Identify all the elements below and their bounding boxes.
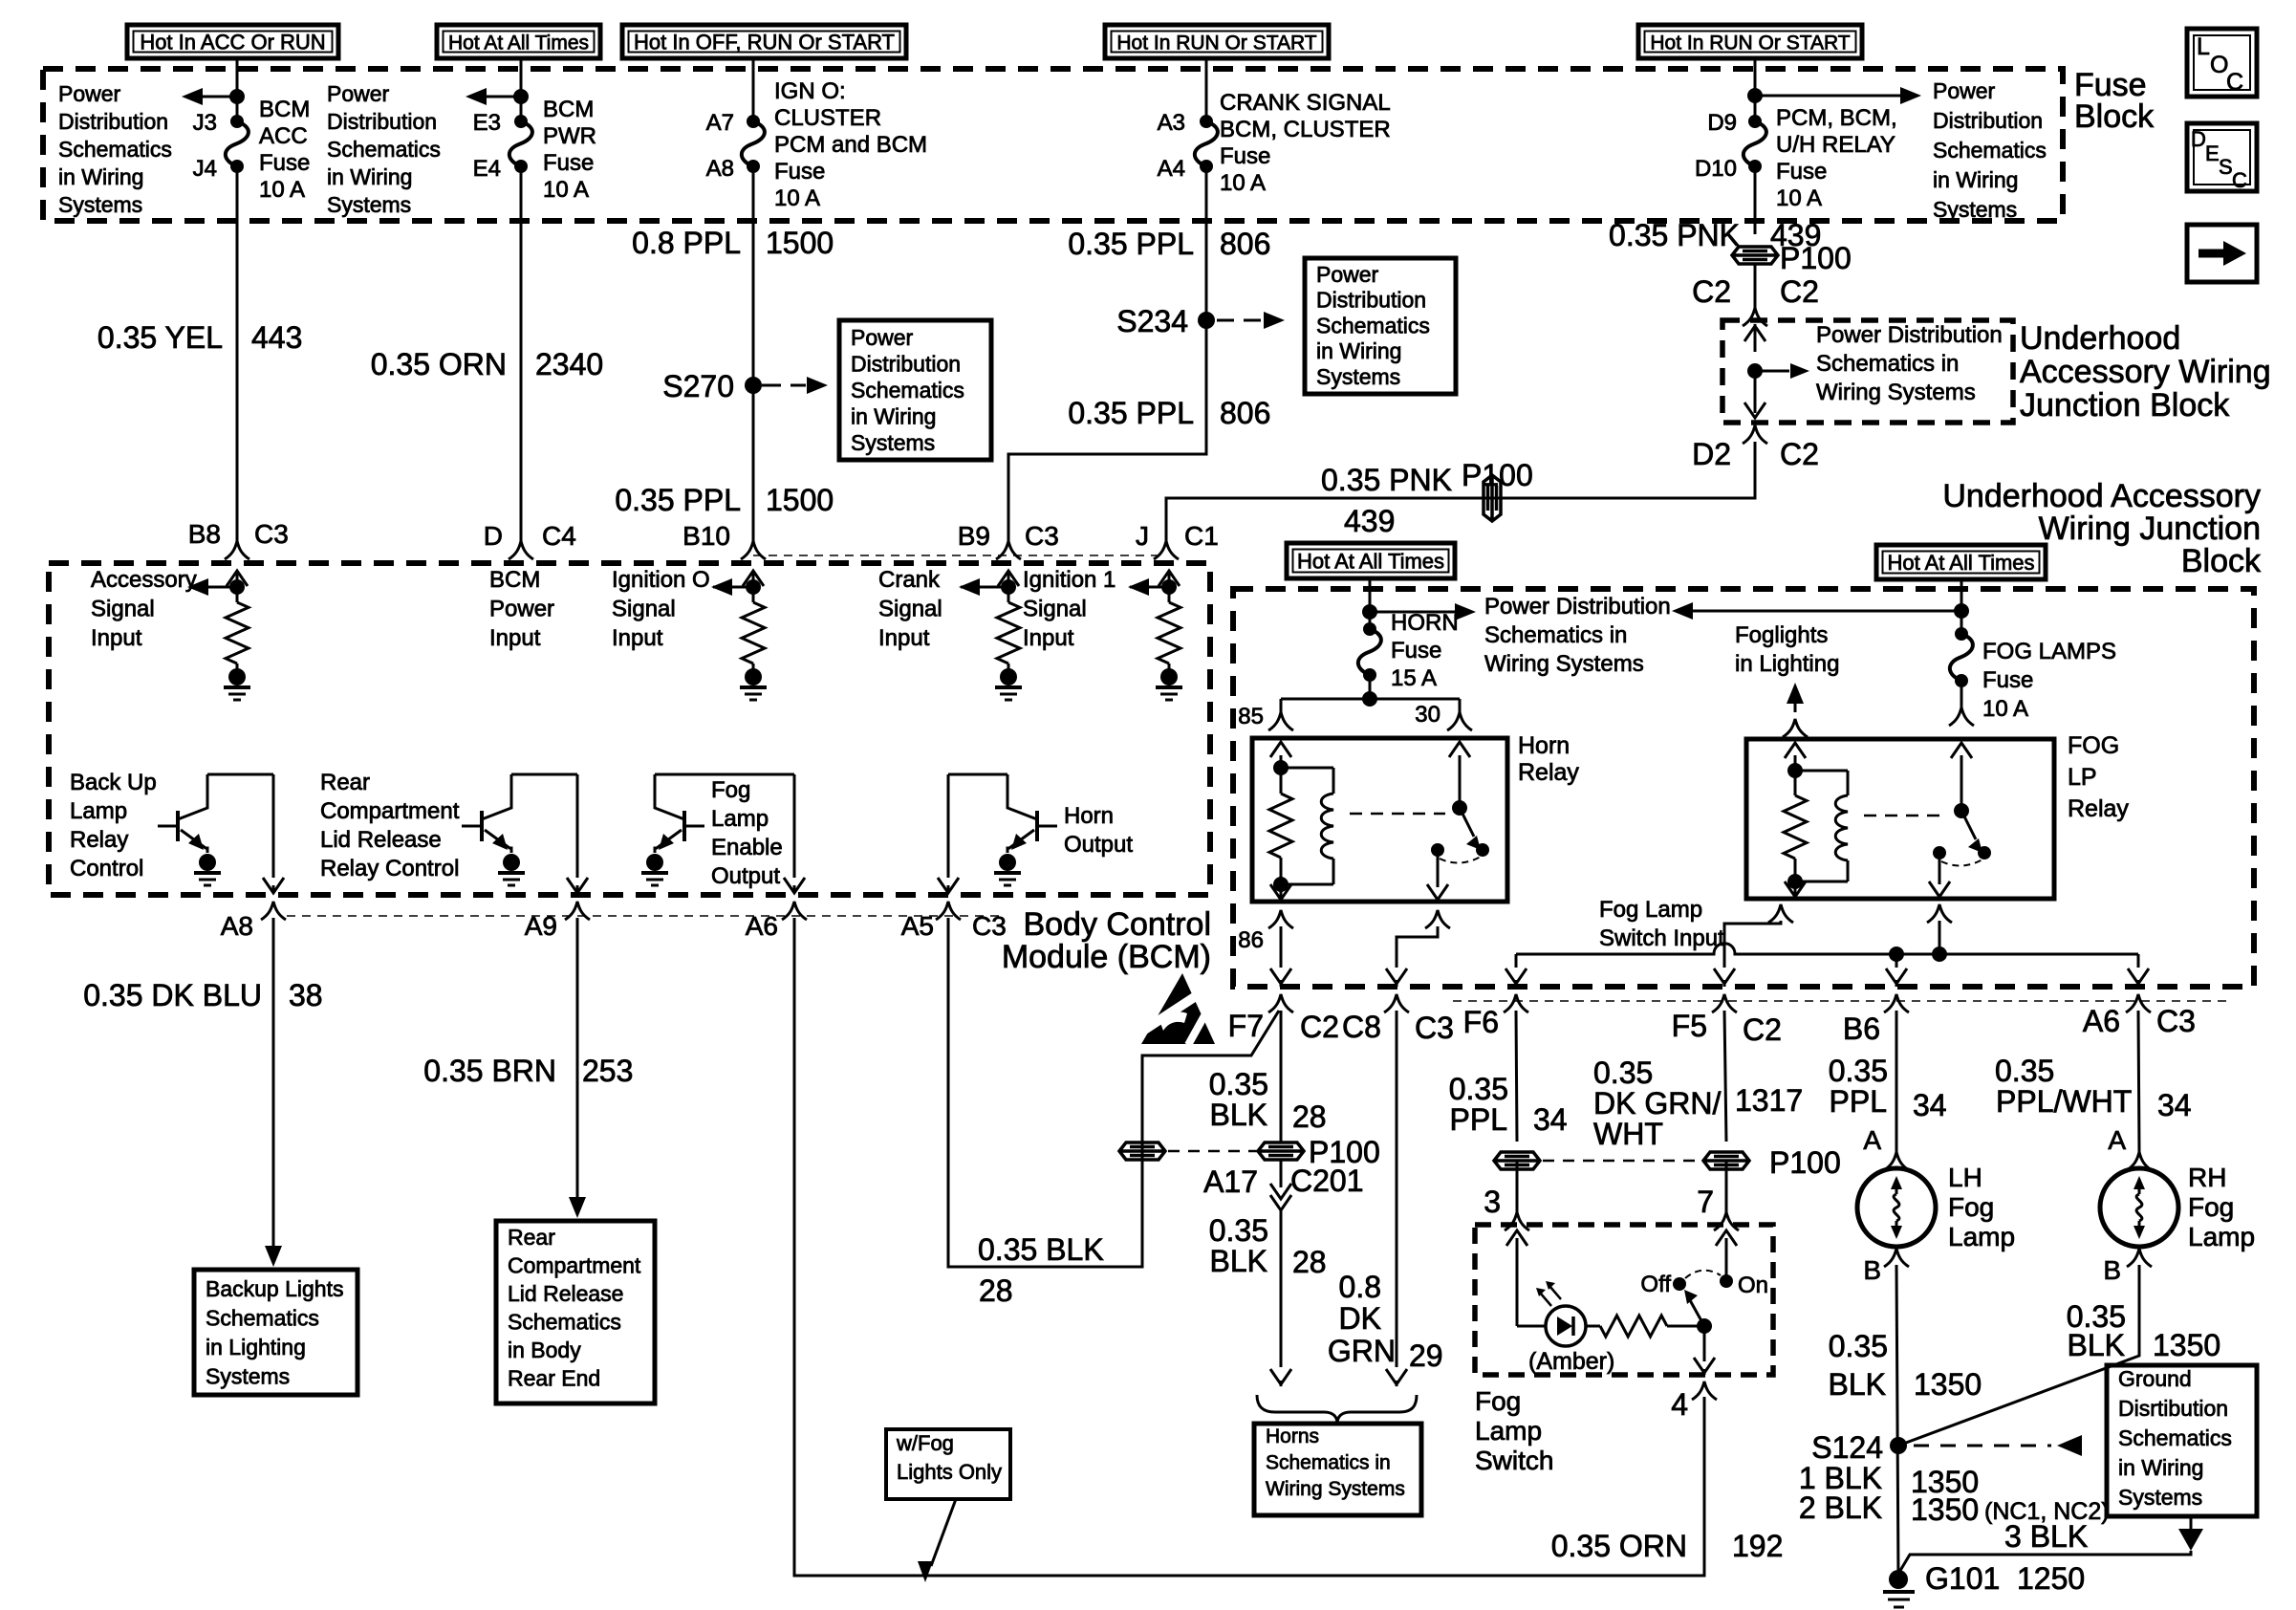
svg-text:1500: 1500: [766, 226, 834, 260]
svg-text:Schematics in: Schematics in: [1484, 622, 1627, 648]
dashed link between P100 grommets: [1168, 1150, 1257, 1153]
svg-text:Crank: Crank: [878, 567, 941, 593]
ref box: Horns Schematics in Wiring Systems: [1254, 1424, 1421, 1515]
fuse F5: PCM BCM U/H RELAY Fuse 10 A: [1748, 115, 1762, 128]
wire: 0.35 YEL 443 (B8): [236, 166, 239, 541]
svg-text:38: 38: [289, 978, 323, 1012]
svg-text:in Wiring: in Wiring: [1933, 167, 2018, 192]
pin C2 | C2 connector: [1692, 274, 1819, 326]
arrow: foglights in lighting output: [1787, 683, 1804, 712]
svg-text:Power: Power: [489, 597, 554, 622]
svg-text:Backup Lights: Backup Lights: [206, 1276, 343, 1301]
svg-text:86: 86: [1238, 927, 1264, 953]
svg-text:Schematics: Schematics: [1933, 138, 2047, 163]
svg-text:Power Distribution: Power Distribution: [1816, 322, 2003, 348]
svg-text:Input: Input: [91, 625, 142, 651]
svg-text:0.35 YEL: 0.35 YEL: [97, 320, 223, 355]
svg-text:A6: A6: [746, 911, 778, 941]
svg-text:in Body: in Body: [508, 1338, 581, 1362]
wire: fog relay output to junction: [1939, 921, 1941, 954]
svg-text:PPL: PPL: [1830, 1084, 1887, 1119]
LED emission arrows: [1536, 1281, 1561, 1306]
svg-text:0.35: 0.35: [1995, 1054, 2054, 1088]
wire: 0.35 PPL/WHT 34 (A6 C3 to RH fog lamp): [2138, 1011, 2139, 1152]
svg-text:10 A: 10 A: [259, 177, 305, 203]
svg-text:Relay Control: Relay Control: [320, 856, 459, 881]
transistor Q4: horn output: [938, 774, 1057, 893]
svg-text:CLUSTER: CLUSTER: [774, 105, 881, 131]
wire: fog relay 86 to F5 with hop: [1714, 921, 1781, 987]
svg-text:S124: S124: [1811, 1430, 1883, 1465]
svg-text:C4: C4: [542, 521, 576, 551]
svg-text:0.35 PPL: 0.35 PPL: [1068, 227, 1194, 261]
svg-text:Switch Input: Switch Input: [1599, 925, 1724, 951]
svg-text:in Lighting: in Lighting: [1735, 651, 1839, 677]
svg-text:C: C: [2232, 168, 2247, 192]
svg-text:0.35 ORN: 0.35 ORN: [371, 347, 507, 381]
connector P100 grommet (left): [1119, 1142, 1165, 1160]
svg-text:A: A: [2108, 1125, 2126, 1155]
fuse: HORN Fuse 15 A: [1363, 622, 1376, 636]
pin A5 | C3 connector: [901, 902, 1007, 941]
pin F5 | C2 connector: [1672, 994, 1782, 1047]
svg-text:BLK: BLK: [2068, 1328, 2125, 1362]
junction S124: [1811, 1430, 1907, 1465]
svg-text:Fog: Fog: [1948, 1192, 1994, 1222]
lamp: LH Fog Lamp: [1857, 1168, 1936, 1247]
svg-text:C2: C2: [1780, 437, 1819, 471]
svg-text:Fuse: Fuse: [1776, 159, 1827, 185]
wire: fog lamp switch input horizontal run: [1505, 944, 2149, 987]
wire: 0.35 ORN 2340 (D): [520, 166, 523, 541]
arrow to Power Distribution Schematics (horn): [1362, 603, 1476, 620]
transistor Q1: back up lamp relay control: [158, 774, 284, 893]
horn relay switch: [1427, 742, 1489, 900]
svg-text:Signal: Signal: [612, 597, 676, 622]
pin A connector (RH): [2127, 1152, 2152, 1170]
svg-text:CRANK SIGNAL: CRANK SIGNAL: [1220, 90, 1391, 116]
pin 4 connector: [1692, 1382, 1717, 1400]
svg-text:Distribution: Distribution: [327, 109, 437, 134]
svg-text:Power: Power: [1316, 262, 1379, 287]
label box: Hot In RUN Or START (PCM): [1638, 25, 1862, 58]
svg-text:443: 443: [251, 320, 302, 355]
wire: 0.35 BLK 1350 (LH to S124 to G101): [1896, 1265, 1898, 1579]
svg-text:Schematics: Schematics: [327, 137, 441, 162]
ignition O signal input (resistor to ground): [711, 571, 767, 700]
svg-text:29: 29: [1409, 1338, 1443, 1373]
svg-text:Distribution: Distribution: [1316, 288, 1426, 313]
svg-text:0.8 PPL: 0.8 PPL: [632, 226, 741, 260]
svg-text:Fuse: Fuse: [1220, 143, 1270, 169]
label: 0.8 DK GRN 29: [1328, 1270, 1443, 1373]
fog lamp switch LED branch: [1506, 1230, 1586, 1346]
pin 30 connector: [1415, 702, 1472, 730]
crank signal input (resistor to ground): [959, 571, 1022, 700]
ref box: Power Distribution Schematics in Wiring Systems (S234): [1305, 258, 1456, 394]
svg-text:0.35 DK BLU: 0.35 DK BLU: [83, 978, 262, 1012]
svg-text:BLK: BLK: [1829, 1367, 1886, 1402]
wire: 0.35 PNK 439 from D10 to P100: [1754, 166, 1757, 234]
connector P100 grommet (right): [1258, 1135, 1380, 1169]
svg-text:Module (BCM): Module (BCM): [1002, 939, 1211, 975]
svg-text:Signal: Signal: [1023, 597, 1087, 622]
svg-text:P100: P100: [1769, 1145, 1841, 1180]
ref box: w/Fog Lights Only: [886, 1429, 1010, 1499]
svg-text:C3: C3: [254, 519, 289, 549]
pin 85 connector: [1238, 704, 1293, 730]
svg-text:LH: LH: [1948, 1163, 1982, 1192]
svg-text:A7: A7: [706, 110, 734, 136]
ignition 1 signal input (resistor to ground): [1128, 571, 1182, 700]
svg-text:in Wiring: in Wiring: [851, 404, 936, 429]
pin F7 connector: [1228, 994, 1293, 1043]
svg-text:Foglights: Foglights: [1735, 622, 1828, 648]
svg-text:Back Up: Back Up: [70, 770, 157, 795]
label: 0.35 PPL 34 (LH): [1829, 1054, 1947, 1122]
svg-text:85: 85: [1238, 704, 1264, 729]
svg-text:E: E: [2205, 141, 2220, 165]
callout arrow from w/Fog Lights Only to ORN wire: [918, 1499, 956, 1582]
wire: 0.35 DK BLU 38 (A8 to backup lights): [265, 918, 282, 1267]
thin dashed connector line at BCM bottom: [287, 915, 1004, 917]
svg-text:HORN: HORN: [1391, 610, 1459, 636]
title: Body Control Module (BCM): [1002, 906, 1211, 975]
svg-text:Schematics: Schematics: [206, 1306, 319, 1331]
svg-text:B: B: [2103, 1255, 2121, 1285]
svg-text:B6: B6: [1843, 1012, 1880, 1046]
wire: horn fuse to relay pins 85/30: [1281, 675, 1460, 712]
svg-text:Compartment: Compartment: [320, 798, 460, 824]
svg-text:Systems: Systems: [58, 192, 142, 217]
svg-text:B10: B10: [682, 521, 730, 551]
junction S234: [1116, 304, 1285, 338]
wire: 0.8 PPL 1500 / 0.35 PPL 1500 (B10): [752, 166, 755, 541]
arrow to Power Distribution Schematics (right): [1747, 87, 1921, 104]
svg-text:Enable: Enable: [711, 835, 783, 860]
wire: horn relay output to C3: [1386, 926, 1438, 987]
svg-text:Control: Control: [70, 856, 143, 881]
horn relay output connector: [1425, 910, 1450, 928]
svg-text:2 BLK: 2 BLK: [1799, 1490, 1882, 1525]
svg-text:C3: C3: [972, 911, 1007, 941]
svg-text:C3: C3: [2156, 1004, 2196, 1038]
svg-text:Compartment: Compartment: [508, 1253, 641, 1278]
pin A9 connector: [525, 902, 590, 941]
fog relay dashed actuator link: [1864, 815, 1947, 817]
svg-text:LP: LP: [2068, 764, 2097, 791]
svg-text:Output: Output: [711, 863, 780, 889]
fog lamp switch dashed box: [1475, 1225, 1773, 1375]
svg-text:Switch: Switch: [1475, 1446, 1553, 1475]
wire: horn fuse feed: [1369, 578, 1372, 629]
svg-text:Power: Power: [1933, 78, 1996, 103]
thin dashed connector line below junction block: [1453, 1000, 2227, 1002]
svg-text:D: D: [2191, 127, 2206, 151]
label: 0.35 BLK 28 (above P100): [1209, 1067, 1327, 1134]
svg-text:A3: A3: [1158, 110, 1185, 136]
svg-text:Fog: Fog: [1475, 1386, 1521, 1416]
svg-text:D2: D2: [1692, 437, 1731, 471]
wire: 0.35 BRN 253 (A9 to rear lid release): [569, 918, 586, 1218]
svg-text:A: A: [1863, 1125, 1881, 1155]
svg-text:PPL: PPL: [1450, 1102, 1507, 1137]
svg-text:A17: A17: [1203, 1164, 1258, 1199]
fuse F2: BCM PWR Fuse 10 A: [514, 115, 528, 128]
svg-text:1350: 1350: [1914, 1367, 1982, 1402]
svg-text:28: 28: [1292, 1245, 1327, 1279]
svg-text:Block: Block: [2074, 98, 2155, 135]
svg-text:Hot At All Times: Hot At All Times: [1297, 550, 1444, 574]
svg-text:D10: D10: [1695, 156, 1737, 182]
svg-text:B8: B8: [188, 519, 221, 549]
label box: Hot At All Times (horn): [1287, 543, 1455, 578]
pin A connector (LH): [1884, 1152, 1909, 1170]
underhood accessory wiring junction block dashed outline: [1233, 589, 2254, 987]
svg-text:Junction Block: Junction Block: [2020, 387, 2230, 424]
svg-text:U/H RELAY: U/H RELAY: [1776, 132, 1895, 158]
horn relay coil circuit: [1269, 742, 1333, 900]
pin B connector (LH): [1884, 1249, 1909, 1267]
svg-text:J: J: [1136, 521, 1149, 551]
svg-text:C2: C2: [1743, 1012, 1782, 1047]
svg-text:On: On: [1738, 1273, 1768, 1298]
label: 0.35 BLK 28 (below C201): [1209, 1213, 1327, 1279]
svg-text:Lamp: Lamp: [711, 806, 769, 832]
pin F6 connector: [1463, 994, 1528, 1039]
svg-text:C1: C1: [1184, 521, 1219, 551]
svg-text:34: 34: [1913, 1088, 1947, 1122]
svg-text:E4: E4: [473, 156, 501, 182]
svg-text:Fog Lamp: Fog Lamp: [1599, 897, 1702, 923]
svg-text:10 A: 10 A: [1220, 170, 1266, 196]
wire: 0.35 PNK 439 horizontal run to J: [1166, 442, 1755, 541]
thin dashed connector line at BCM top: [753, 555, 1164, 556]
svg-text:in Wiring: in Wiring: [327, 164, 412, 189]
svg-text:Fuse: Fuse: [259, 150, 310, 176]
fuse F1: BCM ACC Fuse 10 A: [230, 115, 244, 128]
svg-text:Fuse: Fuse: [774, 159, 825, 185]
pin B connector (RH): [2127, 1249, 2152, 1267]
svg-text:D: D: [484, 521, 503, 551]
connector P100 grommet (switch 7): [1703, 1145, 1841, 1180]
svg-text:253: 253: [582, 1054, 633, 1088]
svg-text:30: 30: [1415, 702, 1440, 728]
svg-text:1350: 1350: [1911, 1492, 1979, 1527]
svg-text:Systems: Systems: [1933, 197, 2017, 222]
label box: Hot At All Times (fuse block): [437, 25, 600, 58]
ref box: Ground Distribution Schematics in Wiring Systems: [2107, 1365, 2257, 1516]
svg-text:Wiring Junction: Wiring Junction: [2039, 511, 2261, 547]
pin B9 | C3 connector: [958, 521, 1059, 559]
svg-text:GRN: GRN: [1328, 1334, 1396, 1368]
pin B10 connector: [682, 521, 766, 559]
title: Underhood Accessory Wiring Junction Block (lower): [1942, 478, 2262, 579]
svg-text:Underhood Accessory: Underhood Accessory: [1942, 478, 2261, 514]
fog relay 86 connector (below box): [1768, 904, 1793, 923]
wire: switch output pin 4: [1694, 1326, 1715, 1375]
label: G101 1250: [1925, 1561, 2085, 1596]
pin B8 | C3 connector: [188, 519, 289, 559]
svg-text:Fuse: Fuse: [1982, 667, 2033, 693]
svg-text:C3: C3: [1415, 1011, 1454, 1045]
wire: horn relay 86 to F7: [1270, 926, 1291, 987]
label: 0.35 DK GRN/WHT 1317: [1593, 1055, 1803, 1151]
svg-text:10 A: 10 A: [1776, 185, 1822, 211]
svg-text:Input: Input: [878, 625, 930, 651]
svg-text:0.35: 0.35: [1829, 1329, 1888, 1363]
svg-text:Lid Release: Lid Release: [508, 1281, 623, 1306]
svg-text:in Wiring: in Wiring: [2118, 1455, 2203, 1480]
Body Control Module dashed outline: [49, 563, 1210, 895]
svg-text:F6: F6: [1463, 1005, 1499, 1039]
svg-text:Accessory: Accessory: [91, 567, 197, 593]
svg-text:D9: D9: [1707, 110, 1737, 136]
wire: 0.35 BLK 1350 (RH to S124): [1898, 1265, 2139, 1446]
fog lamp switch arm: [1684, 1290, 1712, 1334]
svg-text:in Lighting: in Lighting: [206, 1335, 306, 1360]
svg-text:Wiring Systems: Wiring Systems: [1266, 1478, 1405, 1500]
svg-text:0.35 PNK: 0.35 PNK: [1609, 218, 1740, 252]
brace under horn wires: [1257, 1395, 1417, 1424]
svg-text:C201: C201: [1290, 1164, 1364, 1198]
svg-text:Body Control: Body Control: [1023, 906, 1211, 943]
svg-text:34: 34: [1533, 1102, 1568, 1137]
svg-text:1317: 1317: [1735, 1083, 1803, 1118]
fog relay 30 connector: [1949, 707, 1974, 726]
accessory signal input (resistor to ground): [187, 571, 250, 700]
label box: Hot In RUN Or START (crank): [1105, 25, 1329, 58]
svg-text:Systems: Systems: [206, 1364, 290, 1389]
svg-text:Disrtibution: Disrtibution: [2118, 1396, 2228, 1421]
svg-text:Schematics in: Schematics in: [1266, 1452, 1391, 1474]
svg-text:10 A: 10 A: [1982, 696, 2028, 722]
arrow to Power Distribution Schematics (BCM PWR): [466, 88, 529, 105]
svg-text:J4: J4: [193, 156, 217, 182]
svg-text:Lamp: Lamp: [1475, 1416, 1542, 1446]
fog relay output connector (below box): [1927, 904, 1952, 923]
svg-text:in Wiring: in Wiring: [1316, 338, 1401, 363]
svg-text:Lamp: Lamp: [70, 798, 127, 824]
svg-text:1500: 1500: [766, 483, 834, 517]
wire: 0.35 PPL 806 crank run: [1008, 166, 1206, 541]
pin A6 | C3 connector (fog): [2083, 994, 2196, 1038]
wire below P100 to C2 fork: [1754, 265, 1757, 308]
pin J | C1 connector: [1136, 521, 1219, 559]
svg-text:Fuse: Fuse: [543, 150, 594, 176]
fuse block dashed outline: [43, 69, 2063, 221]
forward arrow box: [2187, 225, 2257, 282]
svg-text:Rear: Rear: [320, 770, 370, 795]
svg-text:Lamp: Lamp: [1948, 1222, 2015, 1251]
ESD sensitive device symbol: [1141, 973, 1215, 1045]
arrow to Power Distribution Schematics (BCM ACC): [182, 88, 245, 105]
connector P100 grommet (switch 3): [1494, 1152, 1540, 1169]
svg-text:Horns: Horns: [1266, 1425, 1319, 1447]
svg-text:0.35 PNK: 0.35 PNK: [1321, 463, 1452, 497]
svg-text:A5: A5: [901, 911, 934, 941]
svg-text:C8: C8: [1342, 1010, 1381, 1044]
pin D2 | C2 connector: [1692, 425, 1819, 471]
svg-text:IGN O:: IGN O:: [774, 78, 846, 104]
svg-text:1250: 1250: [2017, 1561, 2085, 1596]
labels: 1 BLK / 2 BLK with circuit numbers: [1799, 1461, 2110, 1527]
svg-text:C2: C2: [1300, 1010, 1339, 1044]
connector P100 pass-through (top): [1732, 241, 1852, 275]
wire: 0.35 DK GRN/WHT 1317 (F5 to switch pin 7): [1724, 1011, 1726, 1212]
pin A6 connector: [746, 902, 807, 941]
svg-text:Schematics: Schematics: [508, 1310, 621, 1335]
svg-text:1350: 1350: [2153, 1328, 2220, 1362]
label: 0.35 PPL/WHT 34 (RH): [1995, 1054, 2192, 1122]
underhood accessory wiring junction block (small) dashed box: [1722, 320, 2013, 423]
svg-text:Systems: Systems: [327, 192, 411, 217]
svg-text:J3: J3: [193, 110, 217, 136]
pin A8 connector: [221, 902, 286, 941]
svg-text:0.35: 0.35: [1449, 1072, 1508, 1106]
svg-text:A6: A6: [2083, 1004, 2120, 1038]
svg-text:S270: S270: [662, 369, 734, 403]
fog lamp relay box: [1746, 739, 2054, 899]
svg-text:806: 806: [1220, 396, 1270, 430]
wire: Hot RUN/START PCM feed: [1754, 58, 1757, 121]
svg-text:Horn: Horn: [1064, 803, 1114, 829]
svg-text:0.35 BRN: 0.35 BRN: [423, 1054, 556, 1088]
svg-text:PWR: PWR: [543, 123, 596, 149]
svg-text:10 A: 10 A: [774, 185, 820, 211]
svg-text:Accessory Wiring: Accessory Wiring: [2020, 354, 2271, 390]
svg-text:10 A: 10 A: [543, 177, 589, 203]
dashed arrow from S124 to ground distribution box: [1914, 1435, 2082, 1456]
svg-text:Fog: Fog: [2188, 1192, 2234, 1222]
dashed link between switch grommets: [1543, 1160, 1700, 1163]
svg-text:Lid Release: Lid Release: [320, 827, 442, 853]
svg-text:Output: Output: [1064, 832, 1133, 858]
svg-text:Schematics: Schematics: [1316, 313, 1430, 337]
horn relay box: [1252, 738, 1507, 902]
svg-text:Fog: Fog: [711, 777, 750, 803]
wire: Hot ACC feed into fuse block: [236, 58, 239, 121]
wire: 0.35 BLK 28 (F7 C2C8 to C201): [1270, 1011, 1291, 1386]
svg-text:Underhood: Underhood: [2020, 320, 2180, 357]
svg-text:P100: P100: [1780, 241, 1852, 275]
ref box: Power Distribution Schematics in Wiring Systems (S270): [839, 320, 991, 460]
svg-text:ACC: ACC: [259, 123, 308, 149]
arrow from fog lamps fuse to Power Distribution text: [1672, 602, 1961, 620]
svg-text:Signal: Signal: [91, 597, 155, 622]
svg-text:BCM, CLUSTER: BCM, CLUSTER: [1220, 117, 1391, 142]
transistor Q3: fog lamp enable output: [641, 774, 805, 893]
svg-text:Hot In RUN Or START: Hot In RUN Or START: [1650, 33, 1850, 54]
svg-text:A9: A9: [525, 911, 557, 941]
svg-text:Power: Power: [327, 81, 390, 106]
svg-text:A8: A8: [221, 911, 253, 941]
fuse F3: IGN 0 CLUSTER PCM and BCM Fuse 10 A: [747, 115, 760, 128]
svg-text:Input: Input: [489, 625, 541, 651]
svg-text:2340: 2340: [535, 347, 603, 381]
ground G101: [1883, 1570, 1915, 1607]
label box: Hot At All Times (fog): [1876, 545, 2046, 579]
fog lamp switch resistor: [1586, 1316, 1704, 1337]
label: 0.35 BLK 1350 (LH): [1829, 1329, 1982, 1402]
svg-text:DK: DK: [1339, 1301, 1381, 1336]
svg-text:34: 34: [2157, 1088, 2192, 1122]
svg-text:28: 28: [979, 1273, 1013, 1308]
pin 7 connector: [1714, 1212, 1739, 1230]
label: 0.35 BLK 1350 (RH): [2067, 1299, 2220, 1362]
svg-text:PPL/WHT: PPL/WHT: [1996, 1084, 2132, 1119]
wire: Hot At All Times feed: [520, 58, 523, 121]
